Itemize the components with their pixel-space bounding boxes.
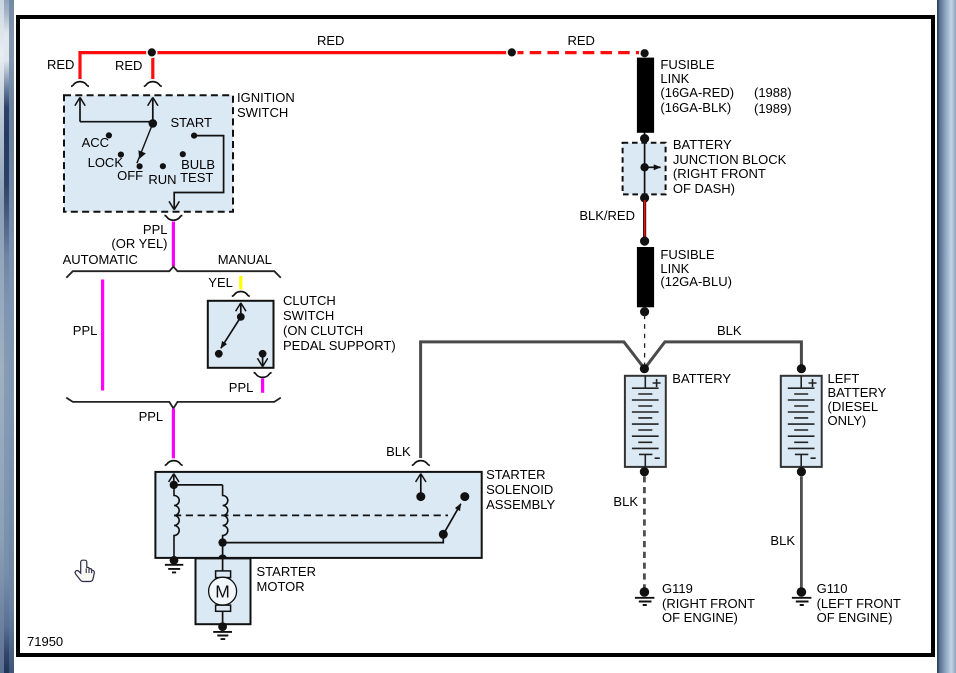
svg-text:M: M xyxy=(215,582,230,602)
